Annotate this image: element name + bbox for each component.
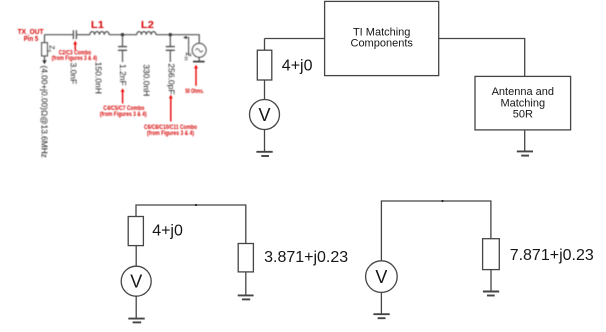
Zin arrow — [186, 38, 189, 56]
ground under source V (bottom-left) — [128, 296, 144, 322]
source V (top) — [250, 100, 280, 130]
svg-text:C4/C5/C7 Combo: C4/C5/C7 Combo — [103, 106, 144, 112]
wire into resistor — [264, 39, 266, 51]
node tick — [441, 200, 443, 202]
svg-text:(from Figures 3 & 4): (from Figures 3 & 4) — [100, 112, 147, 118]
svg-text:TI Matching: TI Matching — [353, 26, 410, 38]
svg-text:330.0nH: 330.0nH — [142, 64, 152, 96]
red arrow to 50 Ohms — [195, 68, 197, 86]
ground under resistor 3.871 — [238, 272, 254, 300]
ground under resistor 7.871 — [483, 270, 499, 296]
svg-text:7.871+j0.23: 7.871+j0.23 — [510, 247, 594, 264]
svg-text:(4.00+j0.00)Ω@13.6MHz: (4.00+j0.00)Ω@13.6MHz — [40, 66, 50, 158]
wire from series cap to L1 — [76, 34, 89, 36]
wire TI box to antenna box — [439, 39, 525, 77]
wire top rail (bottom-left) — [136, 205, 246, 244]
svg-text:50 Ohms.: 50 Ohms. — [185, 89, 204, 95]
svg-text:L2: L2 — [141, 20, 154, 31]
wire source to TI box — [265, 38, 325, 40]
svg-text:L1: L1 — [91, 20, 104, 31]
svg-text:256.0pF: 256.0pF — [166, 63, 176, 94]
svg-text:3.871+j0.23: 3.871+j0.23 — [264, 249, 348, 266]
wire top rail (bottom-right) — [381, 201, 491, 261]
svg-text:Matching: Matching — [500, 97, 545, 109]
wire resistor to source V (bottom-left) — [135, 246, 137, 267]
resistor 7.871+j0.23 — [483, 239, 500, 270]
capacitor C2/C3 series plates — [73, 30, 76, 39]
resistor 4+j0 (bottom-left) — [128, 217, 143, 246]
red annotations — [18, 20, 204, 137]
svg-text:3.0nF: 3.0nF — [69, 63, 79, 85]
capacitor C4/C5/C7 shunt — [118, 35, 127, 62]
red arrow to C2/C3 — [73, 41, 198, 122]
node junction 1 — [121, 33, 124, 36]
svg-text:Components: Components — [351, 38, 414, 50]
svg-text:4+j0: 4+j0 — [282, 57, 313, 74]
svg-text:(from Figures 3 & 4): (from Figures 3 & 4) — [52, 56, 98, 62]
red arrow to C4/C5/C7 — [122, 92, 124, 104]
wire below resistor Zs — [44, 56, 46, 61]
svg-text:(from Figures 3 & 4): (from Figures 3 & 4) — [147, 131, 194, 137]
red arrow to C6/C8/C10/C11 — [170, 98, 172, 122]
capacitor C6/C8/C10/C11 shunt — [166, 35, 175, 62]
source V (bottom-right) — [366, 261, 398, 293]
svg-text:150.0nH: 150.0nH — [94, 62, 104, 94]
AC source 50 ohms — [192, 43, 206, 57]
resistor 3.871+j0.23 — [238, 244, 253, 272]
resistor Zs — [42, 43, 48, 56]
block Antenna and Matching 50R — [475, 76, 571, 129]
wire main from TX_OUT to series cap — [45, 34, 74, 36]
block TI Matching Components — [325, 1, 439, 75]
source V (bottom-left) — [121, 266, 151, 296]
svg-text:V: V — [258, 105, 270, 125]
svg-text:V: V — [375, 267, 387, 287]
svg-text:V: V — [130, 272, 142, 292]
termination bar below source — [198, 57, 200, 61]
svg-text:Antenna and: Antenna and — [492, 86, 554, 98]
svg-text:1.2nF: 1.2nF — [118, 64, 128, 86]
ground under source V (top) — [256, 130, 272, 157]
node junction 2 — [169, 33, 172, 36]
ground under antenna box — [517, 130, 533, 156]
wire resistor to source V — [264, 80, 266, 100]
svg-text:50R: 50R — [513, 109, 533, 121]
wire L1 to L2 through node — [109, 34, 137, 36]
arrowhead below Zs — [42, 60, 46, 64]
svg-text:4+j0: 4+j0 — [152, 223, 183, 240]
node tick — [195, 204, 197, 206]
inductor L1 — [90, 32, 109, 35]
resistor 4+j0 (top) — [257, 50, 272, 80]
wire L2 to source corner — [156, 35, 199, 44]
wire TX_OUT down to resistor Zs — [44, 35, 46, 43]
svg-text:Pin 5: Pin 5 — [24, 36, 39, 43]
ground under source V (bottom-right) — [373, 292, 389, 318]
inductor L2 — [137, 32, 156, 35]
